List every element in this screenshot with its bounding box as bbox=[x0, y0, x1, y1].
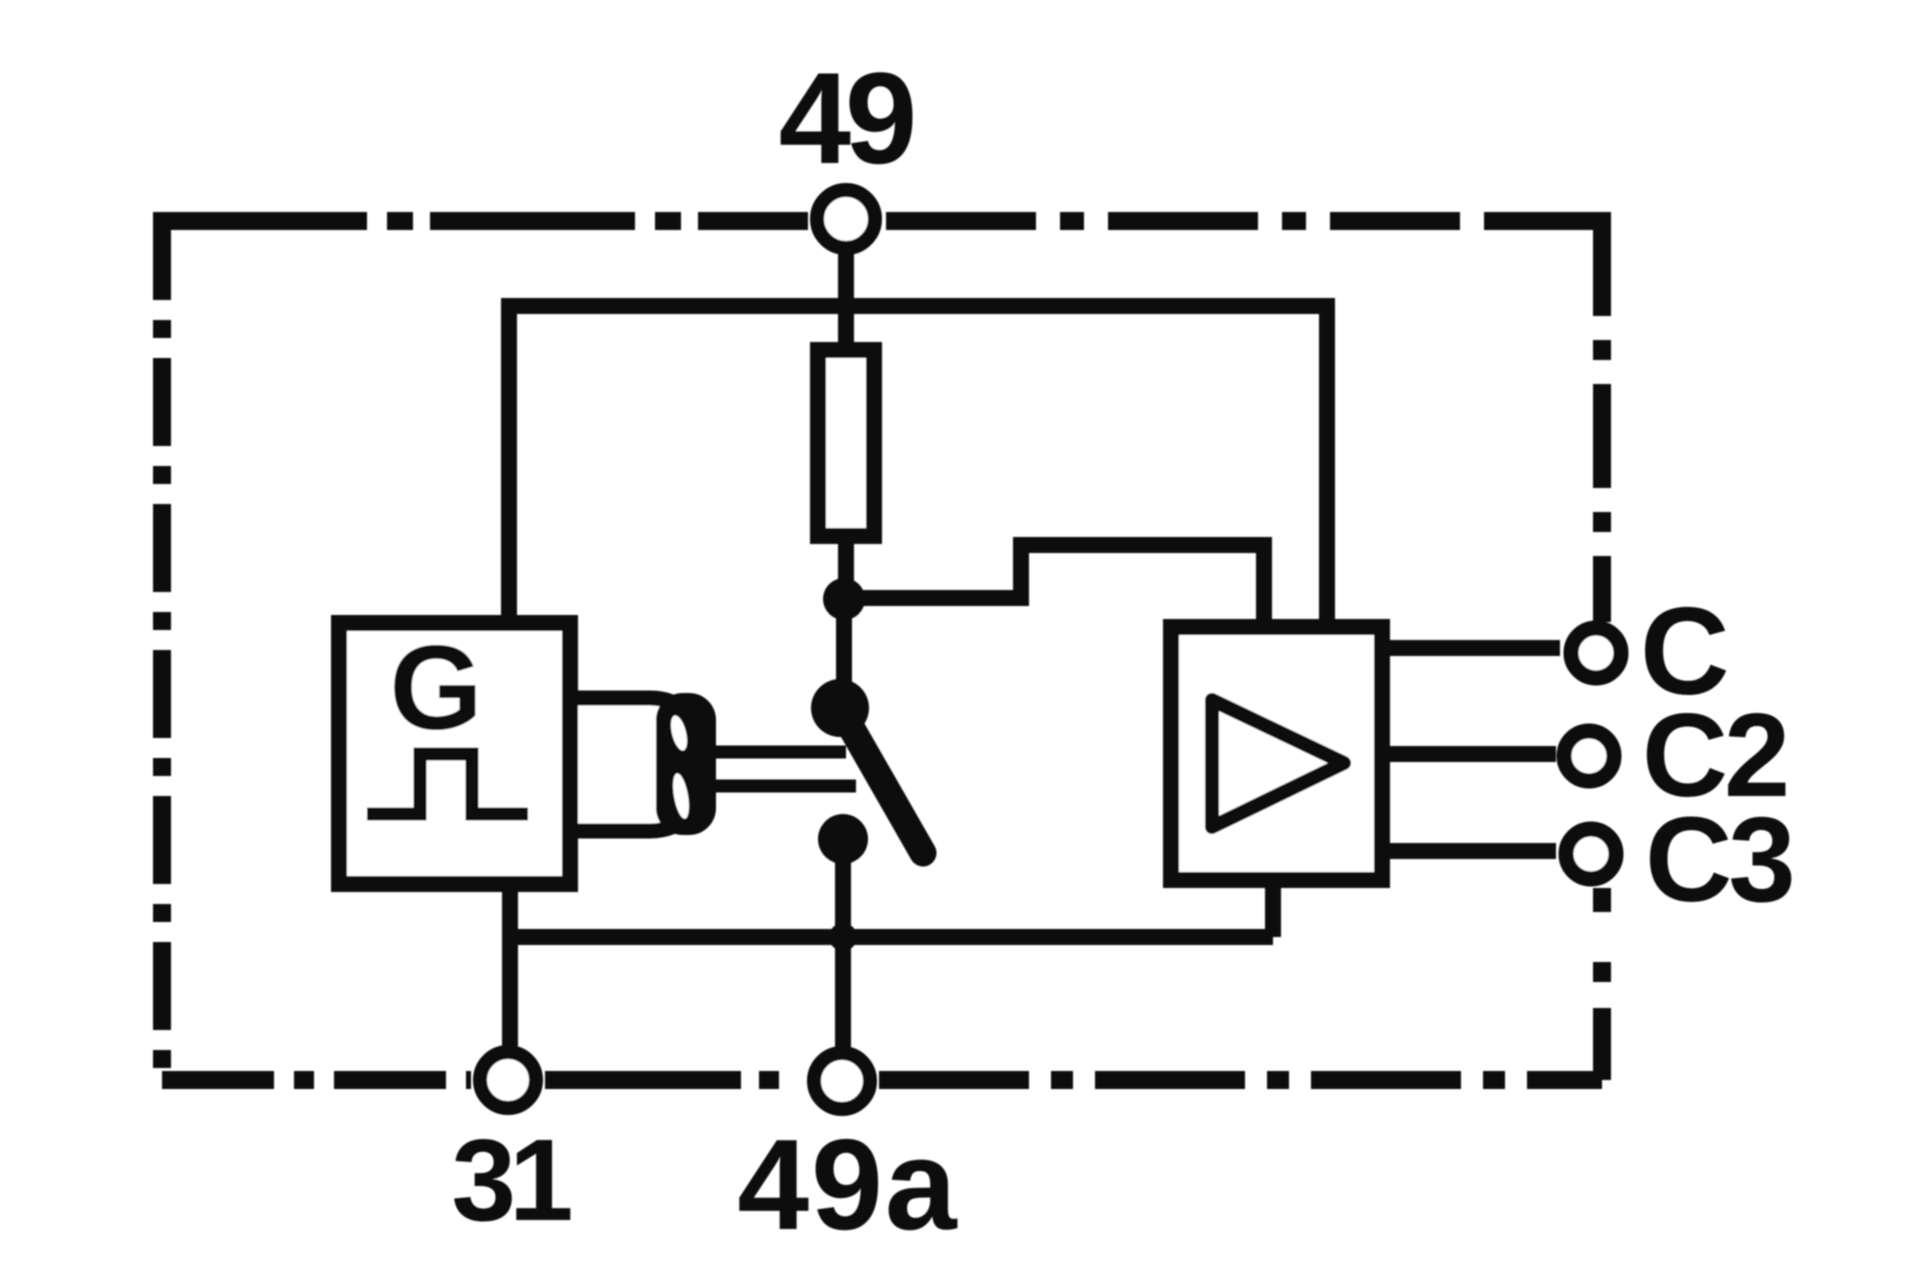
pulse waveform symbol bbox=[367, 754, 528, 814]
resistor R bbox=[818, 350, 874, 536]
svg-text:49: 49 bbox=[779, 45, 913, 191]
terminal C3 (open circle) bbox=[1566, 829, 1616, 879]
wire: amplifier output to terminal C3 bbox=[1390, 843, 1556, 859]
amplifier triangle symbol bbox=[1212, 700, 1344, 827]
wire: bottom rail (G bottom to amplifier bottom) bbox=[510, 929, 1273, 945]
wire: resistor to node bbox=[838, 536, 854, 598]
junction dot on 49a wire at bottom rail bbox=[829, 923, 857, 951]
terminal 49a (open circle) bbox=[814, 1053, 870, 1109]
wire: inner supply rail (left drop to G, top rail, right drop to amplifier) bbox=[509, 306, 1327, 627]
terminal 31 (open circle) bbox=[480, 1052, 536, 1108]
enclosure dash-dot border: right edge upper bbox=[1593, 340, 1611, 622]
wire: contact down to terminal 49a bbox=[835, 839, 851, 1047]
enclosure dash-dot border: bottom-left segment bbox=[162, 1071, 471, 1089]
wire: amplifier output to terminal C bbox=[1390, 640, 1560, 656]
armature link (double line) to switch bbox=[712, 746, 846, 759]
wire: amplifier bottom down to bottom rail bbox=[1265, 888, 1281, 937]
svg-text:49a: 49a bbox=[737, 1113, 958, 1257]
relay coil (solenoid with rounded end) bbox=[578, 698, 701, 831]
terminal C2 (open circle) bbox=[1564, 731, 1614, 781]
wire: node to amplifier input (stepped) bbox=[844, 545, 1264, 627]
switch arm bbox=[840, 708, 923, 853]
node (junction dot) below resistor bbox=[823, 578, 865, 620]
enclosure dash-dot border: right edge lower bbox=[1593, 888, 1611, 1080]
svg-text:G: G bbox=[389, 621, 482, 755]
enclosure dash-dot border: top-right corner piece bbox=[1484, 221, 1602, 316]
svg-text:31: 31 bbox=[451, 1115, 571, 1245]
svg-text:C3: C3 bbox=[1645, 791, 1792, 927]
terminal C (open circle) bbox=[1571, 628, 1621, 678]
switch lower contact dot bbox=[818, 814, 868, 864]
generator block G bbox=[339, 623, 570, 884]
terminal 49 (open circle) bbox=[817, 190, 875, 248]
amplifier block U1 bbox=[1171, 627, 1382, 880]
enclosure dash-dot border: bottom-right segment bbox=[879, 1071, 1602, 1089]
enclosure dash-dot border: bottom middle segment bbox=[545, 1071, 805, 1089]
wire: node down to switch pivot bbox=[836, 598, 852, 690]
wire: terminal 49 down to resistor bbox=[838, 250, 854, 346]
wire: amplifier output to terminal C2 bbox=[1390, 746, 1556, 762]
enclosure dash-dot border: top-right segment bbox=[886, 212, 1460, 230]
enclosure dash-dot border: top-left segment bbox=[162, 212, 808, 230]
wire: G block bottom down to terminal 31 bbox=[502, 892, 518, 1046]
enclosure dash-dot border: left edge bbox=[153, 212, 171, 1080]
coil core (solid rounded end) bbox=[656, 693, 716, 835]
switch pivot dot bbox=[811, 679, 869, 737]
